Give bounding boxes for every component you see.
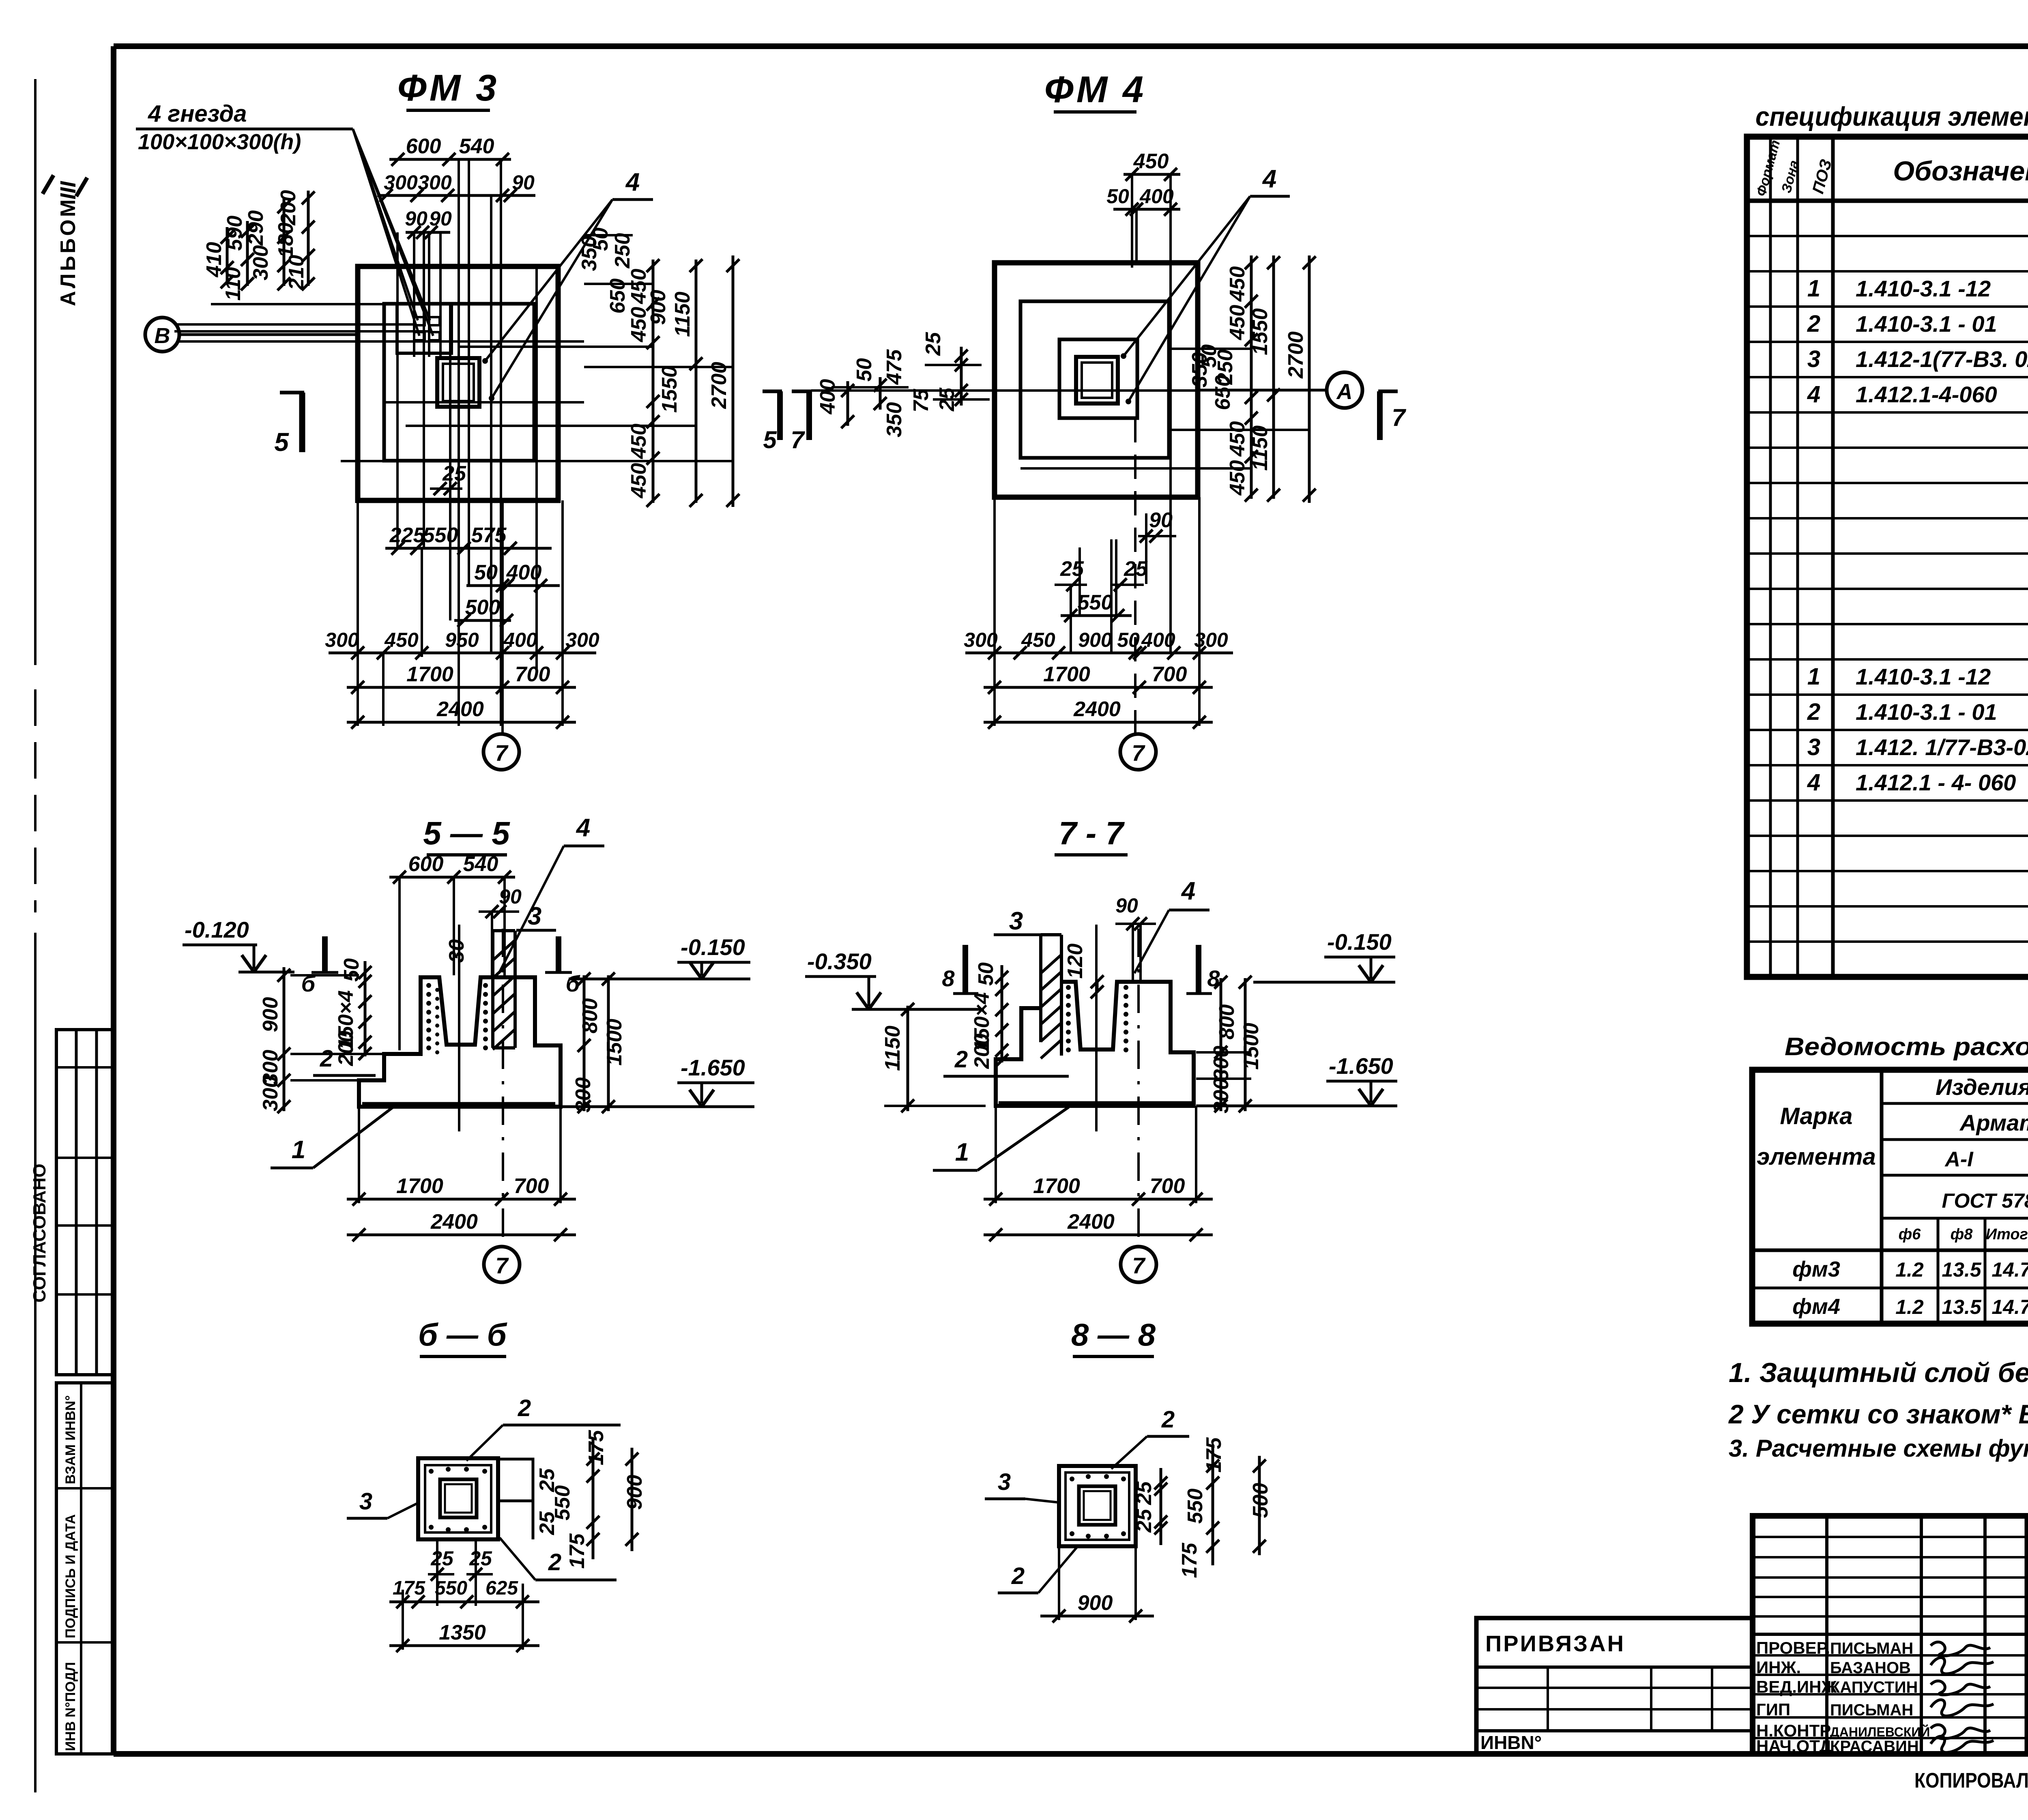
svg-text:1500: 1500 bbox=[603, 1019, 626, 1066]
svg-text:7: 7 bbox=[495, 1253, 509, 1278]
svg-text:800: 800 bbox=[578, 998, 602, 1034]
section 7-7 rot 1150 bbox=[907, 1006, 909, 1111]
svg-text:120: 120 bbox=[1063, 944, 1087, 979]
svg-text:спецификация элементов монолит: спецификация элементов монолитных фундам… bbox=[1755, 101, 2028, 131]
svg-text:2: 2 bbox=[1161, 1406, 1175, 1433]
svg-text:НАЧ.ОТД: НАЧ.ОТД bbox=[1756, 1736, 1832, 1756]
svg-text:3: 3 bbox=[998, 1469, 1011, 1495]
leader lines to sockets bbox=[304, 128, 353, 131]
svg-text:фм4: фм4 bbox=[1792, 1294, 1840, 1319]
section 7-7 column hatch bbox=[1041, 955, 1061, 973]
sidebar approvals table upper bbox=[56, 1030, 114, 1375]
plan FM4 dim 550 bbox=[1061, 614, 1132, 617]
svg-text:ИНВN°: ИНВN° bbox=[1480, 1732, 1542, 1753]
section 5-5 right rot dims 800 1500 300 bbox=[583, 975, 586, 1111]
svg-text:50: 50 bbox=[340, 958, 363, 982]
svg-text:1.410-3.1 -12: 1.410-3.1 -12 bbox=[1856, 664, 1991, 689]
svg-text:2700: 2700 bbox=[707, 362, 731, 409]
plan FM3 dim 500 bbox=[454, 619, 511, 622]
svg-text:300: 300 bbox=[565, 629, 599, 651]
plan FM3 dim 600 540 bbox=[389, 158, 511, 161]
svg-text:1350: 1350 bbox=[439, 1621, 486, 1644]
svg-text:А-I: А-I bbox=[1944, 1148, 1974, 1171]
section 5-5 foundation profile bbox=[359, 977, 561, 1107]
column axis circle A bbox=[1327, 372, 1362, 408]
svg-text:2: 2 bbox=[320, 1045, 333, 1072]
section cut mark 5 left bbox=[280, 391, 304, 395]
svg-text:25: 25 bbox=[535, 1511, 559, 1535]
svg-text:фм3: фм3 bbox=[1792, 1257, 1840, 1281]
svg-text:290: 290 bbox=[244, 210, 268, 246]
svg-text:450: 450 bbox=[1021, 629, 1055, 651]
plan FM4 middle rectangle bbox=[1020, 301, 1169, 458]
svg-text:900: 900 bbox=[647, 290, 670, 325]
svg-text:400: 400 bbox=[1141, 629, 1175, 651]
section 5-5 left rot dims 900 300 300 bbox=[283, 967, 286, 1111]
svg-text:5 — 5: 5 — 5 bbox=[423, 815, 510, 851]
svg-text:ф6: ф6 bbox=[1899, 1226, 1921, 1243]
section 5-5 b marks bbox=[322, 936, 328, 971]
svg-text:КРАСАВИН: КРАСАВИН bbox=[1830, 1738, 1919, 1756]
section 8-8 right dim 500 bbox=[1258, 1456, 1261, 1555]
plan FM3 axis circle 7 bbox=[483, 734, 519, 770]
svg-text:7: 7 bbox=[1392, 404, 1406, 431]
svg-text:5: 5 bbox=[274, 427, 289, 457]
svg-text:90: 90 bbox=[1115, 894, 1138, 917]
svg-text:450: 450 bbox=[627, 463, 651, 499]
section 6-6 bottom dim 1350 bbox=[389, 1644, 539, 1647]
svg-text:ВЕД.ИНЖ: ВЕД.ИНЖ bbox=[1756, 1677, 1837, 1696]
column axis circle V bbox=[145, 318, 179, 352]
section cut marks 5 7 between plans bbox=[763, 390, 782, 393]
svg-text:1.410-3.1 -12: 1.410-3.1 -12 bbox=[1856, 276, 1991, 301]
svg-text:ПИСЬМАН: ПИСЬМАН bbox=[1830, 1701, 1913, 1719]
plan FM4 dim 2400 bbox=[984, 721, 1213, 724]
plan FM3 central column socket double square bbox=[437, 358, 479, 407]
section 5-5 rebar dots right bbox=[483, 983, 488, 988]
svg-text:1150: 1150 bbox=[1248, 425, 1272, 471]
svg-text:25: 25 bbox=[922, 332, 945, 356]
svg-text:2: 2 bbox=[548, 1549, 561, 1575]
svg-text:450: 450 bbox=[1226, 305, 1249, 341]
svg-text:2: 2 bbox=[1011, 1563, 1025, 1589]
svg-text:200: 200 bbox=[277, 190, 300, 226]
plan FM3 projection lines horizontal bbox=[174, 323, 414, 326]
svg-text:300: 300 bbox=[964, 629, 998, 651]
svg-text:1.2: 1.2 bbox=[1895, 1258, 1924, 1281]
svg-text:2400: 2400 bbox=[430, 1210, 478, 1234]
svg-text:300: 300 bbox=[259, 1076, 282, 1112]
svg-text:1.410-3.1 - 01: 1.410-3.1 - 01 bbox=[1856, 311, 1997, 337]
svg-text:1700: 1700 bbox=[396, 1174, 443, 1198]
svg-text:300: 300 bbox=[249, 245, 273, 281]
svg-text:КАПУСТИН: КАПУСТИН bbox=[1830, 1678, 1918, 1696]
svg-text:175: 175 bbox=[584, 1430, 608, 1466]
svg-text:1.2: 1.2 bbox=[1895, 1296, 1924, 1318]
section 6-6 right extension bbox=[498, 1459, 533, 1501]
svg-text:А: А bbox=[1336, 380, 1353, 404]
plan FM3 dim 300 450 950 400 300 bbox=[329, 652, 596, 655]
plan FM3 outer rectangle bbox=[358, 266, 558, 500]
plan FM3 right dim chain 1150 1550 bbox=[695, 260, 698, 503]
svg-text:КОПИРОВАЛ· КОРШУНОВА 23091-03: КОПИРОВАЛ· КОРШУНОВА 23091-03 bbox=[1914, 1769, 2028, 1792]
svg-text:4: 4 bbox=[576, 814, 590, 842]
svg-text:1: 1 bbox=[1807, 663, 1820, 690]
svg-text:1.412-1(77-В3. 020: 1.412-1(77-В3. 020 bbox=[1856, 346, 2028, 372]
svg-text:БАЗАНОВ: БАЗАНОВ bbox=[1830, 1659, 1911, 1677]
svg-text:7: 7 bbox=[1132, 1253, 1146, 1278]
plan FM3 projection lines vertical bbox=[396, 232, 399, 548]
svg-text:300: 300 bbox=[384, 171, 418, 194]
svg-text:700: 700 bbox=[1150, 1174, 1185, 1198]
svg-text:50: 50 bbox=[974, 962, 998, 986]
svg-text:1.412. 1/77-В3-020: 1.412. 1/77-В3-020 bbox=[1856, 734, 2028, 760]
svg-text:300: 300 bbox=[1209, 1078, 1233, 1114]
svg-text:8: 8 bbox=[1207, 966, 1220, 991]
svg-text:2400: 2400 bbox=[1073, 698, 1121, 721]
svg-text:-0.120: -0.120 bbox=[185, 917, 249, 942]
svg-text:1.412.1 - 4- 060: 1.412.1 - 4- 060 bbox=[1856, 770, 2016, 795]
svg-text:ИНВ N°ПОДЛ: ИНВ N°ПОДЛ bbox=[63, 1662, 78, 1751]
svg-text:4: 4 bbox=[1181, 877, 1195, 905]
svg-text:1500: 1500 bbox=[1240, 1023, 1263, 1070]
plan FM4 axis circle 7 bbox=[1120, 734, 1156, 770]
svg-text:550: 550 bbox=[1078, 591, 1113, 614]
plan FM4 dim 1700 700 bbox=[984, 686, 1213, 689]
svg-text:250: 250 bbox=[611, 233, 634, 269]
svg-text:-0.150: -0.150 bbox=[1327, 929, 1392, 955]
sheet trim line left bbox=[34, 79, 37, 665]
svg-text:400: 400 bbox=[503, 629, 537, 651]
svg-text:13.5: 13.5 bbox=[1942, 1296, 1982, 1318]
section 8-8 outer square bbox=[1059, 1466, 1136, 1546]
svg-text:950: 950 bbox=[445, 629, 479, 651]
svg-text:7: 7 bbox=[791, 426, 805, 453]
svg-text:8: 8 bbox=[942, 966, 955, 991]
svg-text:3: 3 bbox=[1807, 346, 1820, 372]
svg-text:450: 450 bbox=[1226, 460, 1249, 496]
svg-text:25: 25 bbox=[469, 1547, 492, 1570]
svg-text:14.7: 14.7 bbox=[1991, 1258, 2028, 1281]
svg-text:1. Защитный слой бетона ни: 1. Защитный слой бетона нижних сеток - 3… bbox=[1729, 1357, 2028, 1388]
plan FM3 dim 50 400 bbox=[466, 584, 560, 587]
svg-text:90: 90 bbox=[429, 207, 452, 230]
section 6-6 inner wall bbox=[425, 1465, 491, 1532]
svg-text:1: 1 bbox=[292, 1136, 305, 1164]
svg-text:1550: 1550 bbox=[1248, 308, 1272, 355]
svg-text:550: 550 bbox=[423, 524, 458, 547]
svg-text:200: 200 bbox=[334, 1031, 358, 1067]
section 6-6 central double square bbox=[440, 1479, 477, 1517]
section 5-5 column hatch bbox=[493, 940, 515, 960]
svg-text:III: III bbox=[56, 181, 80, 200]
svg-text:-1.650: -1.650 bbox=[681, 1055, 745, 1080]
section 7-7 mesh line bbox=[999, 1101, 1192, 1106]
plan FM3 right dim chain 450x4 bbox=[652, 260, 655, 503]
plan FM4 dim 450 top bbox=[1124, 173, 1180, 176]
svg-text:Итого: Итого bbox=[1986, 1226, 2028, 1243]
svg-text:б — б: б — б bbox=[418, 1317, 507, 1352]
svg-text:1: 1 bbox=[955, 1138, 969, 1166]
svg-text:1700: 1700 bbox=[406, 663, 453, 686]
svg-text:ГОСТ 5781- 82: ГОСТ 5781- 82 bbox=[1942, 1189, 2028, 1212]
svg-text:550: 550 bbox=[435, 1577, 467, 1599]
svg-text:175: 175 bbox=[1178, 1543, 1201, 1578]
svg-text:225: 225 bbox=[389, 524, 425, 547]
svg-text:600: 600 bbox=[408, 852, 444, 876]
plan FM4 dim 2700 bbox=[1308, 255, 1311, 503]
svg-text:2400: 2400 bbox=[1067, 1210, 1115, 1234]
svg-text:5: 5 bbox=[763, 426, 777, 453]
title block privyazan box bbox=[1476, 1618, 1753, 1754]
plan FM3 dim 2400 bbox=[347, 721, 576, 724]
svg-text:3: 3 bbox=[359, 1488, 372, 1515]
svg-text:450: 450 bbox=[1226, 266, 1249, 302]
spec table grid bbox=[1747, 137, 2028, 977]
section 7-7 right rot dims 800 1500 300 300 bbox=[1220, 978, 1222, 1111]
svg-text:2: 2 bbox=[518, 1395, 531, 1421]
section 7-7 foundation profile bbox=[996, 982, 1194, 1106]
plan FM4 central double square bbox=[1076, 357, 1118, 403]
svg-text:4 гнезда: 4 гнезда bbox=[148, 101, 247, 127]
svg-text:ПРИВЯЗАН: ПРИВЯЗАН bbox=[1485, 1631, 1625, 1656]
section 6-6 right dim 900 bbox=[631, 1448, 634, 1551]
svg-text:3: 3 bbox=[1807, 734, 1820, 760]
svg-text:2: 2 bbox=[1807, 699, 1820, 725]
section 6-6 right dim chain 175 550 175 bbox=[592, 1439, 595, 1559]
svg-text:2 У сетки со знаком* Верхн: 2 У сетки со знаком* Верхний стержень сн… bbox=[1728, 1399, 2028, 1429]
plan FM3 right dim 2700 bbox=[732, 255, 735, 507]
svg-text:1150: 1150 bbox=[881, 1026, 904, 1071]
svg-text:7: 7 bbox=[495, 740, 509, 766]
svg-text:900: 900 bbox=[1078, 629, 1112, 651]
svg-text:50: 50 bbox=[474, 561, 498, 584]
svg-text:50: 50 bbox=[853, 358, 876, 382]
svg-text:2700: 2700 bbox=[1284, 331, 1308, 379]
svg-text:ФМ 3: ФМ 3 bbox=[397, 67, 499, 109]
section 8-8 central double square bbox=[1079, 1486, 1115, 1525]
section 5-5 dim 2400 bottom bbox=[347, 1234, 576, 1236]
svg-text:600: 600 bbox=[406, 135, 441, 158]
svg-text:100×100×300(h): 100×100×300(h) bbox=[138, 130, 301, 154]
plan FM4 dim 300 450 900 50 400 300 bbox=[965, 652, 1233, 655]
svg-text:1550: 1550 bbox=[658, 366, 681, 413]
section 7-7 rebar dots bbox=[1066, 985, 1071, 990]
plan FM4 projection lines bbox=[1131, 174, 1133, 268]
title block TP row bbox=[2027, 1574, 2028, 1577]
svg-text:210: 210 bbox=[285, 255, 308, 291]
section 7-7 left rot dims bbox=[1001, 965, 1003, 1062]
section 6-6 rebar dots bbox=[429, 1469, 434, 1474]
plan FM4 right chain 1550 1150 bbox=[1272, 255, 1275, 499]
svg-text:Изделия арматурные: Изделия арматурные bbox=[1936, 1074, 2028, 1100]
svg-text:450: 450 bbox=[1133, 150, 1169, 173]
svg-text:350: 350 bbox=[883, 402, 906, 438]
svg-text:450: 450 bbox=[384, 629, 419, 651]
section 7-7 dim 1700 700 bbox=[984, 1198, 1213, 1201]
svg-text:-1.650: -1.650 bbox=[1329, 1053, 1393, 1079]
svg-text:1700: 1700 bbox=[1033, 1174, 1080, 1198]
svg-text:Марка: Марка bbox=[1780, 1103, 1852, 1129]
svg-text:25: 25 bbox=[1132, 1481, 1156, 1505]
plan FM3 middle step rectangle bbox=[384, 304, 534, 461]
svg-text:2400: 2400 bbox=[436, 698, 484, 721]
svg-text:90: 90 bbox=[499, 885, 522, 908]
svg-text:900: 900 bbox=[1078, 1591, 1113, 1615]
svg-text:ВЗАМ ИНВN°: ВЗАМ ИНВN° bbox=[63, 1395, 78, 1484]
svg-text:300: 300 bbox=[571, 1077, 595, 1113]
svg-text:8 — 8: 8 — 8 bbox=[1071, 1317, 1156, 1352]
section 7-7 dim 2400 bbox=[984, 1234, 1213, 1236]
section 5-5 dim 1700 700 bottom bbox=[347, 1198, 576, 1201]
svg-text:элемента: элемента bbox=[1757, 1144, 1876, 1170]
svg-text:Обозначение: Обозначение bbox=[1893, 156, 2028, 187]
svg-text:900: 900 bbox=[259, 997, 282, 1032]
svg-text:4: 4 bbox=[1807, 769, 1820, 796]
plan FM3 dim 300 300 90 bbox=[377, 194, 535, 197]
plan FM3 dim 225 550 575 bbox=[385, 547, 552, 550]
svg-text:900: 900 bbox=[623, 1475, 647, 1510]
svg-text:-0.350: -0.350 bbox=[807, 949, 872, 974]
svg-text:500: 500 bbox=[1249, 1483, 1272, 1518]
svg-text:2: 2 bbox=[1807, 311, 1820, 337]
svg-text:90: 90 bbox=[1149, 509, 1173, 532]
svg-text:450: 450 bbox=[627, 424, 651, 459]
section 8-8 rebar dots bbox=[1070, 1477, 1074, 1481]
svg-text:25: 25 bbox=[1132, 1509, 1156, 1533]
section 7-7 8 marks bbox=[962, 945, 968, 993]
svg-text:1.410-3.1 - 01: 1.410-3.1 - 01 bbox=[1856, 699, 1997, 725]
section 5-5 rebar dots left bbox=[426, 983, 431, 988]
svg-text:590: 590 bbox=[223, 216, 247, 251]
svg-text:В: В bbox=[155, 324, 170, 348]
svg-text:400: 400 bbox=[1139, 185, 1174, 208]
svg-text:110: 110 bbox=[221, 267, 245, 300]
svg-text:ПИСЬМАН: ПИСЬМАН bbox=[1830, 1640, 1913, 1657]
svg-text:ПОДПИСЬ И ДАТА: ПОДПИСЬ И ДАТА bbox=[63, 1514, 78, 1638]
svg-text:540: 540 bbox=[459, 135, 494, 158]
svg-text:700: 700 bbox=[515, 663, 550, 686]
svg-text:ПРОВЕР.: ПРОВЕР. bbox=[1756, 1638, 1830, 1657]
section 6-6 bottom dim 175 550 625 bbox=[389, 1601, 539, 1603]
svg-text:13.5: 13.5 bbox=[1942, 1258, 1982, 1281]
svg-text:14.7: 14.7 bbox=[1991, 1296, 2028, 1318]
section 8-8 bottom dim 900 bbox=[1040, 1615, 1154, 1618]
svg-text:400: 400 bbox=[816, 379, 840, 415]
svg-text:75: 75 bbox=[909, 388, 933, 412]
section 5-5 left small rot dims bbox=[364, 961, 367, 1056]
section cut mark 7 right of A bbox=[1378, 390, 1398, 393]
svg-text:400: 400 bbox=[506, 561, 542, 584]
svg-text:1.412.1-4-060: 1.412.1-4-060 bbox=[1856, 382, 1997, 407]
steel table grid bbox=[1752, 1070, 2028, 1324]
svg-text:4: 4 bbox=[1262, 165, 1276, 193]
svg-text:50: 50 bbox=[1106, 185, 1129, 208]
section 8-8 inner wall bbox=[1066, 1472, 1129, 1540]
svg-text:25: 25 bbox=[430, 1547, 454, 1570]
svg-text:ГИП: ГИП bbox=[1756, 1700, 1790, 1719]
svg-text:180: 180 bbox=[274, 223, 298, 258]
plan FM3 socket box top-left bbox=[397, 304, 451, 353]
plan FM4 right dim chain 450s bbox=[1250, 255, 1253, 499]
svg-text:25: 25 bbox=[1124, 557, 1148, 581]
sidebar inventory table lower bbox=[56, 1383, 114, 1754]
svg-text:Арматура класса: Арматура класса bbox=[1959, 1110, 2028, 1135]
svg-text:4: 4 bbox=[1807, 381, 1820, 408]
svg-text:300: 300 bbox=[1194, 629, 1228, 651]
svg-text:700: 700 bbox=[514, 1174, 549, 1198]
svg-text:7: 7 bbox=[1132, 740, 1145, 766]
svg-text:1150: 1150 bbox=[671, 292, 694, 337]
section 5-5 dim 600 540 top bbox=[389, 876, 515, 879]
svg-text:800: 800 bbox=[1215, 1004, 1239, 1040]
svg-text:175: 175 bbox=[1202, 1437, 1226, 1473]
section 5-5 precast column above top bbox=[491, 931, 494, 1048]
svg-text:1: 1 bbox=[1807, 275, 1820, 302]
svg-text:ФМ 4: ФМ 4 bbox=[1044, 69, 1146, 110]
svg-text:ДАНИЛЕВСКИЙ: ДАНИЛЕВСКИЙ bbox=[1830, 1725, 1930, 1739]
svg-text:4: 4 bbox=[625, 168, 640, 196]
svg-text:175: 175 bbox=[393, 1577, 425, 1599]
section 5-5 mesh line bottom bbox=[362, 1102, 555, 1107]
svg-text:90: 90 bbox=[405, 207, 428, 230]
svg-text:30: 30 bbox=[445, 939, 468, 963]
section 8-8 right dim chains bbox=[1160, 1468, 1162, 1545]
section 6-6 outer square bbox=[418, 1458, 498, 1539]
svg-text:2: 2 bbox=[954, 1046, 968, 1073]
section 7-7 socket inner lines bbox=[1095, 925, 1098, 1131]
plan FM4 outer rectangle bbox=[995, 263, 1198, 497]
plan FM4 dim 50 400 bbox=[1113, 208, 1180, 211]
svg-text:ИНЖ.: ИНЖ. bbox=[1756, 1658, 1801, 1677]
svg-text:7 - 7: 7 - 7 bbox=[1059, 815, 1125, 851]
plan FM3 left dim chains bbox=[226, 227, 229, 284]
svg-text:1700: 1700 bbox=[1043, 663, 1090, 686]
svg-text:300: 300 bbox=[418, 171, 452, 194]
svg-text:-0.150: -0.150 bbox=[681, 934, 745, 960]
svg-text:175: 175 bbox=[565, 1533, 589, 1569]
svg-text:700: 700 bbox=[1152, 663, 1187, 686]
svg-text:3: 3 bbox=[1009, 907, 1023, 935]
svg-text:3. Расчетные схемы фундамен: 3. Расчетные схемы фундаментов Фм3 , Фм4… bbox=[1729, 1435, 2028, 1462]
title block main grid bbox=[1753, 1516, 2028, 1754]
svg-text:300: 300 bbox=[325, 629, 359, 651]
svg-text:300: 300 bbox=[1209, 1046, 1233, 1081]
section 7-7 axis circle 7 bbox=[1121, 1247, 1156, 1282]
plan FM3 four sockets 100x100 bbox=[414, 317, 425, 325]
svg-text:3: 3 bbox=[528, 902, 541, 930]
svg-text:625: 625 bbox=[486, 1577, 518, 1599]
section 5-5 axis circle 7 bbox=[484, 1247, 520, 1282]
svg-text:Ведомость расхода стали на эле: Ведомость расхода стали на элемент, кг. bbox=[1785, 1033, 2028, 1061]
svg-text:650: 650 bbox=[1211, 375, 1235, 410]
plan FM3 dim 90 90 bbox=[406, 231, 450, 234]
drawing frame border bbox=[114, 43, 2028, 49]
svg-text:90: 90 bbox=[512, 171, 535, 194]
svg-text:СОГЛАСОВАНО: СОГЛАСОВАНО bbox=[30, 1163, 49, 1303]
svg-text:550: 550 bbox=[1184, 1489, 1207, 1524]
svg-text:500: 500 bbox=[465, 596, 501, 619]
svg-text:450: 450 bbox=[1226, 421, 1249, 457]
svg-text:ф8: ф8 bbox=[1951, 1226, 1973, 1243]
svg-text:200: 200 bbox=[970, 1034, 994, 1069]
svg-text:540: 540 bbox=[463, 852, 498, 876]
plan FM3 bottom projection lines bbox=[357, 500, 359, 726]
plan FM3 dim 1700 700 bbox=[347, 686, 576, 689]
section 7-7 column outline bbox=[1039, 935, 1042, 1042]
svg-text:АЛЬБОМ: АЛЬБОМ bbox=[56, 197, 80, 306]
plan FM4 third rectangle bbox=[1059, 339, 1137, 418]
